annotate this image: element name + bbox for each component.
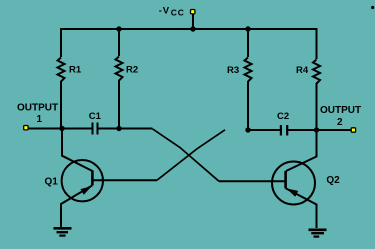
svg-text:OUTPUT: OUTPUT	[17, 103, 58, 114]
svg-text:Q1: Q1	[45, 176, 59, 187]
svg-text:R2: R2	[126, 64, 138, 75]
svg-text:R4: R4	[296, 65, 309, 76]
svg-text:Q2: Q2	[326, 175, 340, 186]
svg-text:C1: C1	[89, 111, 102, 122]
svg-text:OUTPUT: OUTPUT	[320, 105, 361, 116]
svg-text:CC: CC	[171, 8, 185, 18]
svg-text:1: 1	[37, 114, 43, 125]
svg-text:R1: R1	[69, 64, 82, 75]
svg-text:2: 2	[337, 117, 343, 128]
svg-text:-V: -V	[159, 6, 170, 17]
svg-text:R3: R3	[227, 65, 239, 76]
svg-text:C2: C2	[277, 111, 289, 122]
